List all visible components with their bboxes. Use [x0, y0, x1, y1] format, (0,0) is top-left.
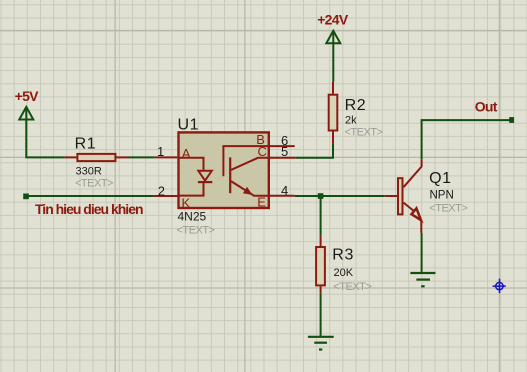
svg-text:<TEXT>: <TEXT> — [333, 281, 371, 293]
svg-text:2: 2 — [158, 183, 165, 198]
transistor Q1 emitter arrowhead — [412, 208, 422, 220]
svg-text:K: K — [182, 195, 191, 210]
wire input rail to U1 pin2 — [26, 195, 154, 197]
wire R3 to ground — [320, 294, 322, 336]
transistor Q1 base lead — [385, 195, 397, 197]
svg-text:4N25: 4N25 — [178, 210, 207, 224]
svg-text:U1: U1 — [178, 116, 200, 133]
resistor R2 body — [329, 95, 338, 131]
U1 internal cathode path — [179, 182, 204, 196]
transistor Q1 collector — [404, 159, 422, 187]
wire Q1 emitter to ground — [421, 233, 423, 272]
svg-text:NPN: NPN — [430, 190, 454, 202]
U1 phototransistor emitter — [231, 181, 269, 196]
svg-text:R2: R2 — [345, 97, 367, 114]
svg-text:Tin hieu dieu khien: Tin hieu dieu khien — [35, 201, 143, 217]
svg-text:<TEXT>: <TEXT> — [75, 178, 113, 190]
transistor Q1 emitter — [404, 203, 415, 212]
svg-text:R3: R3 — [332, 247, 354, 264]
svg-text:<TEXT>: <TEXT> — [177, 225, 215, 237]
wire +24V to R2 — [332, 43, 334, 81]
node junction dot — [318, 193, 324, 199]
U1 pin 5 stub — [270, 157, 296, 159]
svg-text:330R: 330R — [76, 166, 102, 178]
U1 internal LED anode path — [179, 158, 204, 170]
U1 internal LED diode triangle — [198, 171, 212, 181]
wire +5V to R1 — [26, 120, 64, 158]
resistor R3 leads — [320, 235, 322, 294]
ground below Q1 — [410, 273, 435, 286]
svg-text:20K: 20K — [334, 267, 354, 279]
U1 phototransistor collector — [231, 158, 269, 170]
svg-text:E: E — [257, 194, 266, 209]
power +5V symbol — [19, 107, 33, 120]
U1 internal LED cathode bar — [198, 181, 212, 183]
svg-text:Out: Out — [475, 98, 498, 114]
node: input terminal dot — [23, 194, 29, 200]
U1 emitter arrowhead — [243, 187, 253, 195]
svg-text:Q1: Q1 — [429, 170, 452, 187]
svg-text:<TEXT>: <TEXT> — [345, 127, 383, 139]
wire R2 to pin5 net — [296, 143, 333, 158]
wire Q1 collector to Out — [422, 120, 510, 159]
node Out terminal dot — [509, 117, 514, 123]
power +24V symbol — [326, 31, 340, 43]
svg-text:2k: 2k — [345, 115, 357, 127]
U1 internal base route from B pin — [223, 146, 268, 176]
wire R1 to U1 pin1 — [129, 156, 155, 158]
resistor R3 body — [316, 247, 325, 285]
U1 pin 1 stub — [155, 156, 178, 158]
svg-text:4: 4 — [281, 183, 288, 198]
resistor R1 leads — [65, 156, 129, 158]
marker origin crosshair — [493, 279, 506, 294]
transistor Q1 emitter lead down — [420, 221, 422, 233]
svg-text:5: 5 — [281, 144, 288, 159]
svg-text:+24V: +24V — [317, 12, 349, 28]
svg-text:R1: R1 — [75, 135, 97, 152]
svg-text:1: 1 — [157, 144, 164, 159]
svg-text:C: C — [258, 144, 267, 159]
U1 pin 6 stub — [270, 145, 295, 147]
svg-text:<TEXT>: <TEXT> — [429, 203, 467, 215]
transistor Q1 base bar — [398, 178, 403, 214]
wire junction down to R3 — [320, 198, 322, 235]
svg-text:+5V: +5V — [15, 88, 40, 104]
ground below R3 — [308, 337, 334, 350]
resistor R1 body — [77, 154, 115, 161]
U1 phototransistor base bar — [229, 157, 231, 193]
U1 pin 4 stub — [270, 195, 295, 197]
wire U1 pin4 rail — [295, 195, 385, 197]
svg-text:A: A — [182, 146, 191, 161]
op-amp U1 body box — [179, 132, 269, 208]
resistor R2 leads — [332, 82, 334, 144]
U1 pin 2 stub — [154, 195, 178, 197]
